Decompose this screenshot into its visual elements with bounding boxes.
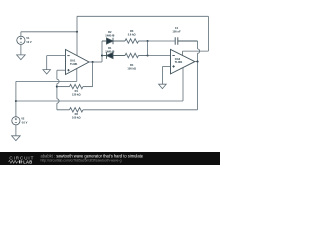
ground at OA2 + input [159,84,167,88]
svg-text:http://circuitlab.com/c/7b85a2: http://circuitlab.com/c/7b85a26m3f3f/saw… [41,158,122,162]
resistor R3 [125,39,148,43]
svg-text:TL081: TL081 [175,60,183,64]
wire OA2 + input [163,65,171,67]
svg-text:R3: R3 [130,29,134,33]
wire V1 bottom stub [20,44,22,55]
svg-text:LAB: LAB [23,159,32,164]
wire +10V feed to OA1 V+ [21,31,77,33]
node junction -10V tee [15,100,17,102]
svg-text:D2: D2 [108,30,112,34]
svg-text:100 nF: 100 nF [172,29,181,33]
capacitor C1 [175,37,197,45]
wire OA1 output riser to diode branches [101,41,103,62]
wire to OA2 - input [148,55,171,57]
wire OA1 output stub [89,61,102,63]
wire top +10V rail [77,15,208,17]
svg-text:1N4148: 1N4148 [105,50,115,54]
node junction OA2 output [196,61,198,63]
wire OA1 - input ground riser [46,56,48,70]
svg-text:10 V: 10 V [26,40,32,44]
diode D2 [102,38,125,44]
svg-text:R4: R4 [130,63,134,67]
wire V1 top stub [20,32,22,37]
svg-text:R2: R2 [75,112,79,116]
svg-text:C1: C1 [175,26,179,30]
resistor R4 [125,53,148,57]
wire OA2 V- pin [182,68,184,101]
svg-text:100 kΩ: 100 kΩ [72,116,81,120]
wire -10V branch to OA2 V- [16,100,183,102]
node junction R4/OA2 - input [147,54,149,56]
svg-text:OA1: OA1 [70,58,76,62]
wire OA2 output stub [195,61,198,63]
svg-text:D1: D1 [108,46,112,50]
node junction V1/OA1 V+ [76,31,78,33]
wire C1 drop to OA2 output (hop over V+ wire) [197,41,199,62]
svg-text:-10 V: -10 V [21,121,27,125]
wire to OA2 V+ [183,50,209,52]
wire OA2 V+ pin [182,51,184,55]
wire branch connector [147,41,149,56]
diode D1 [102,52,125,58]
node junction OA1 output [92,61,94,63]
resistor R2 [57,108,198,112]
footer bar [0,152,220,165]
op-amp OA2 [171,49,195,74]
svg-text:R1: R1 [75,89,79,93]
ground below V2 [12,136,21,141]
CircuitLab logo [9,156,35,165]
svg-text:5.6 kΩ: 5.6 kΩ [128,33,136,37]
node junction + input / R1 [56,86,58,88]
wire to C1 [148,40,176,42]
wire right rail drop [207,16,209,51]
wire OA1 V- pin [76,68,78,81]
wire -10V rail to OA1 V- (hop over + input riser) [16,80,77,82]
svg-text:V2: V2 [21,117,25,121]
wire OA1 V+ riser [76,16,78,55]
ground below V1 [17,55,26,60]
wire V2 bottom stub [15,125,17,136]
voltage source V1 [17,36,25,44]
ground at OA1 - input [43,70,51,74]
resistor R1 [57,84,93,88]
svg-text:100 kΩ: 100 kΩ [127,66,136,70]
wire OA1 - input [47,55,66,57]
wire -10V riser [15,81,17,101]
svg-text:V1: V1 [26,36,30,40]
wire OA1 + input [57,69,66,71]
node junction D1 branch [101,54,103,56]
svg-text:TL081: TL081 [70,62,78,66]
wire R2 riser to OA2 output [197,62,199,110]
voltage source V2 [12,117,20,125]
node junction R3/C1 [147,40,149,42]
op-amp OA1 [66,50,90,75]
svg-text:120 kΩ: 120 kΩ [72,93,81,97]
wire OA1 + input riser (hops over -10V rails) [56,70,58,110]
svg-text:1N4148: 1N4148 [105,34,115,38]
wire V2 top stub [15,101,17,117]
wire OA2 + input ground riser [162,66,164,84]
wire R1 riser to output [92,62,94,87]
